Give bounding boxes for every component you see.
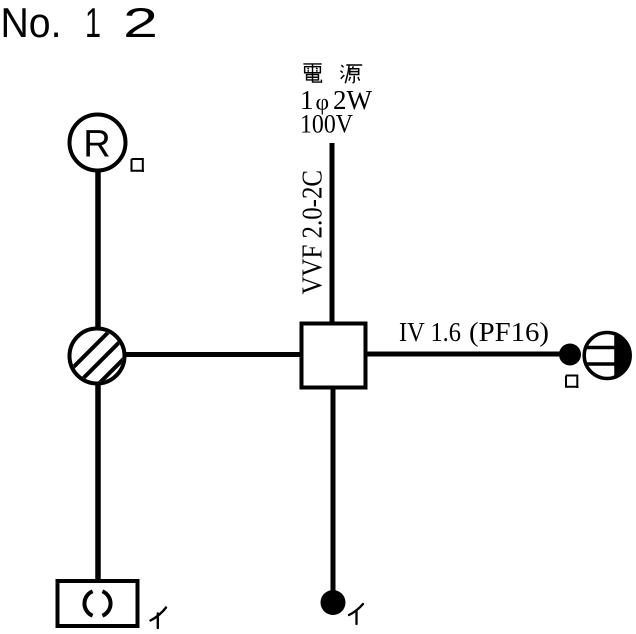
svg-text:VVF 2.0-2C: VVF 2.0-2C — [297, 170, 329, 295]
svg-text:1: 1 — [85, 0, 101, 46]
svg-text:(PF16): (PF16) — [469, 316, 549, 347]
svg-text:IV 1.6: IV 1.6 — [399, 316, 461, 347]
svg-text:2: 2 — [123, 0, 158, 46]
svg-text:R: R — [83, 124, 110, 166]
svg-text:No.: No. — [1, 0, 62, 46]
svg-text:100V: 100V — [300, 110, 353, 139]
